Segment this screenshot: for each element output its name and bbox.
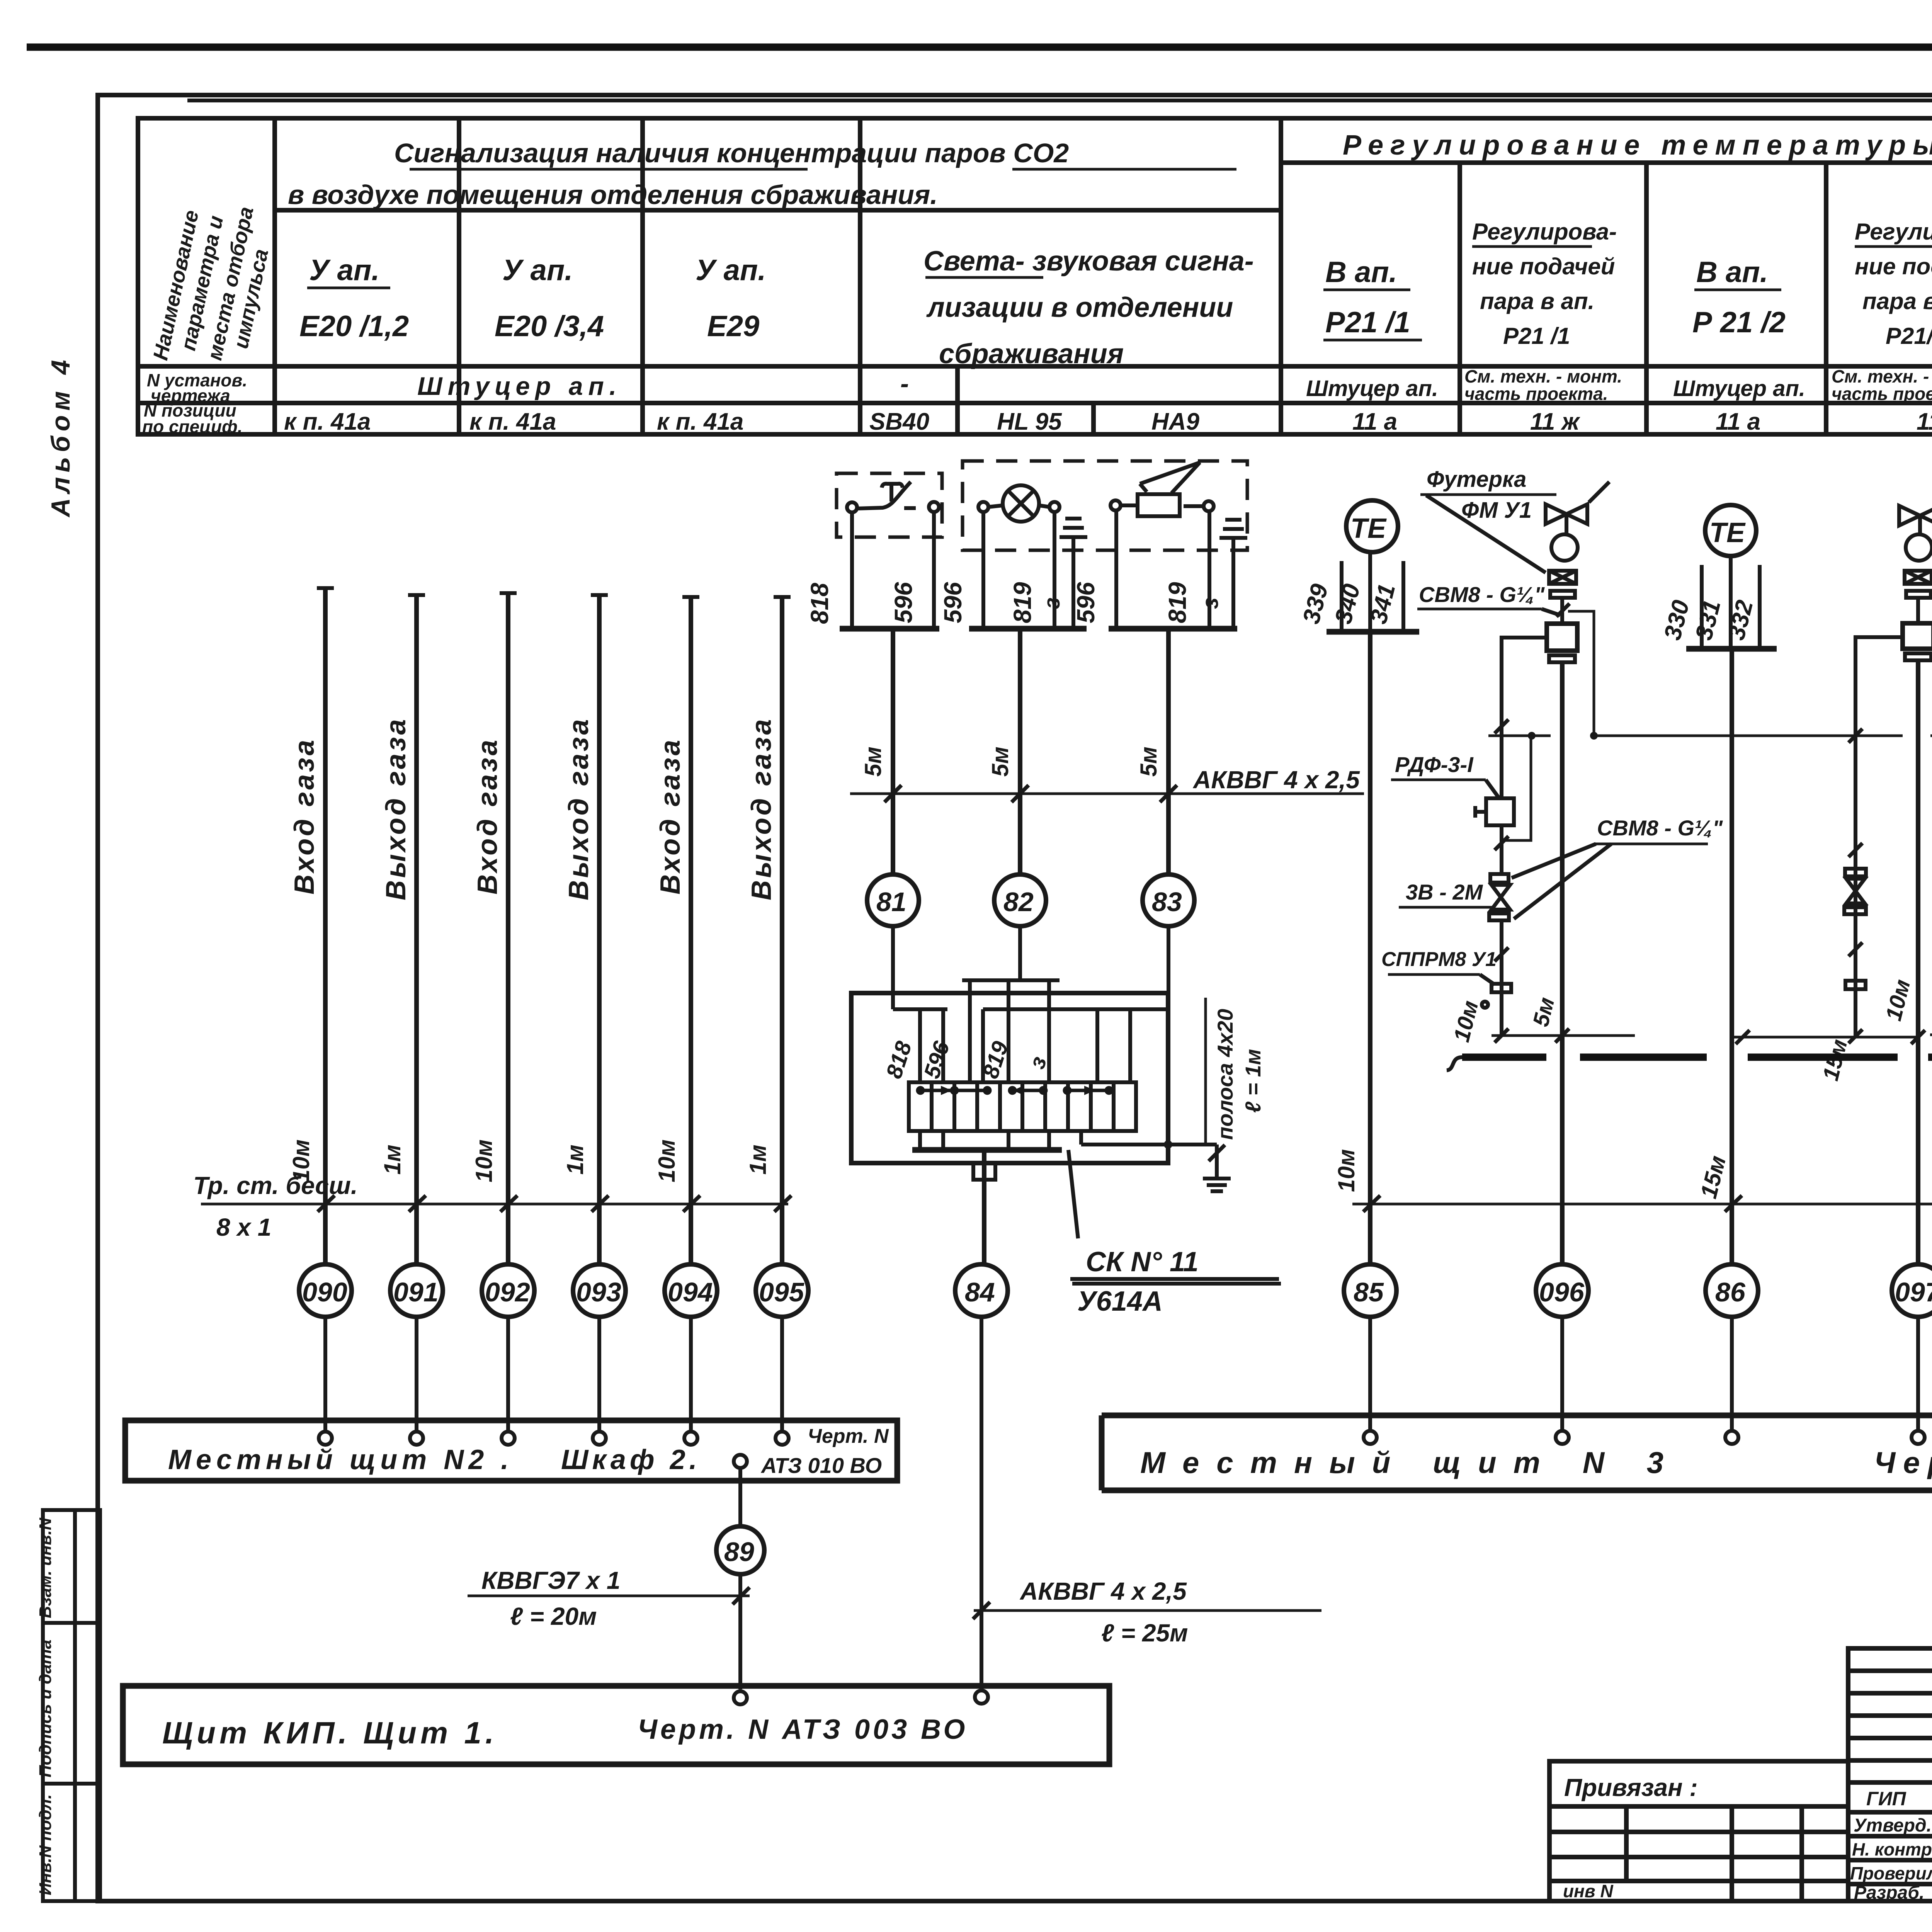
TE1 pin wires 339 340 341 [1342, 552, 1403, 632]
cable run Тр.ст.бесш. 8х1 left [193, 1172, 791, 1241]
svg-text:пара в ап.: пара в ап. [1862, 288, 1932, 314]
svg-text:з: з [1198, 597, 1223, 609]
svg-text:В ап.: В ап. [1325, 256, 1397, 289]
instrument circle 091 [390, 1264, 443, 1317]
wire 82 to box [1018, 926, 1022, 980]
svg-text:596: 596 [1072, 582, 1100, 623]
cable run АКВВГ 4х2,5 [850, 766, 1364, 802]
solenoid2 box [1903, 623, 1932, 649]
cell Регулирование подачей пара Р21/2 [1855, 219, 1932, 349]
svg-text:Щит КИП. Щит 1.: Щит КИП. Щит 1. [162, 1716, 498, 1750]
wire to СППРМ8 [1500, 920, 1503, 1036]
svg-text:818: 818 [806, 583, 833, 624]
solenoid2 flange [1905, 653, 1931, 660]
junction dot 2 [1590, 732, 1598, 740]
svg-text:пара в ап.: пара в ап. [1480, 288, 1594, 314]
svg-text:11 а: 11 а [1352, 408, 1397, 435]
wire 818 drop [850, 512, 854, 629]
terminal 86 [1725, 1431, 1738, 1444]
hatch under РДФ [1495, 836, 1509, 850]
ground symbol sk [1203, 1179, 1231, 1191]
instrument circle 093 [573, 1264, 626, 1317]
svg-text:Утверд.: Утверд. [1854, 1815, 1932, 1836]
cell Регулирование подачей пара Р21/1 [1472, 219, 1617, 349]
row label N установ. чертежа [147, 370, 247, 406]
terminal 097 [1912, 1431, 1925, 1444]
svg-text:Привязан :: Привязан : [1564, 1774, 1698, 1801]
TE2 bottom bar [1686, 646, 1777, 652]
svg-text:097: 097 [1895, 1277, 1932, 1307]
svg-text:Черт. N АТЗ 011 ВО: Черт. N АТЗ 011 ВО [1874, 1446, 1932, 1480]
svg-text:11 а: 11 а [1716, 408, 1760, 435]
svg-text:лизации в отделении: лизации в отделении [926, 292, 1233, 323]
svg-text:з: з [1039, 597, 1065, 609]
svg-text:НА9: НА9 [1151, 408, 1200, 435]
wire 097 run [1916, 660, 1920, 1264]
wires below circles to terminals N3 [1370, 1317, 1932, 1430]
svg-text:Черт. N: Черт. N [808, 1425, 889, 1447]
См.техн.-монт. часть проекта 2 [1832, 366, 1932, 404]
instrument circle 092 [482, 1264, 534, 1317]
instrument circle 090 [299, 1264, 352, 1317]
svg-text:Выход газа: Выход газа [381, 717, 412, 900]
horn НА9 symbol [1121, 463, 1204, 516]
wire 819a drop [1053, 512, 1056, 629]
svg-text:Р 21 /2: Р 21 /2 [1692, 306, 1786, 339]
margin stamp boxes bottom-left [36, 1510, 100, 1901]
wire 83 to box [1167, 926, 1170, 1009]
terminal 096 [1556, 1431, 1569, 1444]
valve2 actuator circle [1906, 534, 1932, 561]
svg-text:10м: 10м [654, 1139, 680, 1182]
harness bar C [983, 1009, 1168, 1082]
instrument circle 095 [756, 1264, 808, 1317]
svg-text:83: 83 [1152, 887, 1182, 917]
svg-text:Сигнализация наличия конц: Сигнализация наличия концентрации паров … [394, 138, 1069, 168]
label Черт.N АТЗ 010 ВО [760, 1425, 889, 1478]
wire Вход газа 2 [506, 593, 510, 1264]
wire 84 lower [980, 1317, 983, 1689]
svg-text:ние подачей: ние подачей [1855, 253, 1932, 279]
heavy pipe run Тр.ст.бесш 8х1 right [1462, 1054, 1932, 1061]
svg-text:Штуцер ап.: Штуцер ап. [1306, 376, 1438, 401]
output stub square [973, 1163, 995, 1180]
svg-text:ТЕ: ТЕ [1350, 513, 1387, 544]
svg-text:по специф.: по специф. [142, 417, 243, 437]
svg-text:85: 85 [1354, 1277, 1384, 1307]
wire 82 drop [1018, 629, 1022, 874]
wire Вход газа 3 [689, 597, 693, 1264]
title block outline [1848, 1648, 1932, 1901]
TE1 bottom bar [1327, 629, 1419, 635]
wire 096 run [1560, 662, 1565, 1264]
terminal 89 on КИП [734, 1691, 747, 1704]
РДФ outlet link to bus [1502, 736, 1531, 840]
svg-text:У614А: У614А [1077, 1286, 1163, 1317]
terminal 090 [319, 1432, 332, 1445]
svg-text:У ап.: У ап. [502, 254, 573, 287]
label СППРМ8 У1 [1381, 948, 1497, 985]
harness bar B [962, 980, 1060, 1082]
terminal horn left [1111, 500, 1121, 510]
wire to circle 89 [738, 1468, 742, 1526]
instrument circle 81 [867, 874, 919, 926]
svg-text:Черт. N АТЗ 003 ВО: Черт. N АТЗ 003 ВО [638, 1714, 968, 1745]
parameter table grid [138, 118, 1932, 434]
wire 596c drop [1114, 512, 1118, 629]
svg-text:Подпись и дата: Подпись и дата [36, 1639, 55, 1777]
svg-text:часть проекта: часть проекта [1832, 384, 1932, 404]
svg-text:Местный щит N2 .: Местный щит N2 . [168, 1444, 513, 1475]
svg-text:10м: 10м [288, 1139, 314, 1182]
label 10м branch [1449, 998, 1488, 1044]
svg-text:Р21/2: Р21/2 [1886, 323, 1932, 349]
control valve body [1546, 482, 1609, 535]
instrument circle 097 [1892, 1264, 1932, 1317]
wire 81 to box [891, 926, 895, 1009]
row label N позиции по специф. [142, 400, 243, 437]
svg-text:Н. контр.: Н. контр. [1852, 1839, 1932, 1859]
svg-text:в воздухе помещения отделе: в воздухе помещения отделения сбраживани… [288, 180, 938, 210]
terminal strip [909, 1082, 1136, 1131]
wire Выход газа 1 [414, 595, 419, 1264]
terminal sw right [929, 502, 939, 512]
solenoid valve box [1547, 624, 1577, 651]
harness bar A [893, 1009, 947, 1082]
svg-text:СППРМ8 У1: СППРМ8 У1 [1381, 948, 1497, 971]
wire 819b drop [1207, 512, 1211, 629]
svg-text:81: 81 [876, 887, 906, 917]
lamp HL95 symbol [988, 485, 1049, 522]
hatch above СППРМ8 [1495, 947, 1509, 961]
header: Сигнализация наличия концентрации паров СО2 [288, 138, 1236, 211]
terminal 095 [776, 1432, 789, 1445]
svg-text:090: 090 [302, 1277, 347, 1307]
svg-text:Света- звуковая сигна-: Света- звуковая сигна- [923, 246, 1254, 277]
svg-text:092: 092 [485, 1277, 530, 1307]
svg-text:ФМ У1: ФМ У1 [1461, 498, 1532, 523]
svg-text:ℓ = 25м: ℓ = 25м [1101, 1619, 1188, 1647]
svg-text:HL 95: HL 95 [997, 408, 1062, 435]
svg-text:часть проекта.: часть проекта. [1464, 384, 1608, 404]
solenoid flange [1549, 655, 1575, 662]
valve2 pilot box X [1905, 571, 1932, 584]
svg-text:10м: 10м [1333, 1149, 1359, 1192]
Привязан box [1549, 1761, 1848, 1901]
svg-text:ГИП: ГИП [1866, 1788, 1906, 1810]
ground symbol g1 [1060, 519, 1087, 629]
svg-text:ℓ = 1м: ℓ = 1м [1241, 1049, 1265, 1113]
cable label АКВВГ 4х2,5 l=25м [973, 1577, 1321, 1647]
bus group1 [840, 626, 939, 632]
svg-text:Футерка: Футерка [1427, 467, 1526, 492]
svg-text:Е20 /3,4: Е20 /3,4 [495, 310, 604, 343]
svg-text:АКВВГ 4 х 2,5: АКВВГ 4 х 2,5 [1192, 766, 1360, 794]
svg-text:SВ40: SВ40 [869, 408, 929, 435]
instrument circle 096 [1536, 1264, 1588, 1317]
switch SB40 symbol [857, 482, 916, 509]
svg-text:РДФ-3-I: РДФ-3-I [1395, 752, 1474, 777]
TE2 pin wires 330 331 332 [1702, 556, 1760, 649]
svg-text:5м: 5м [987, 747, 1013, 777]
branch2 drop [1855, 637, 1903, 846]
См.техн.-монт. часть проекта [1464, 366, 1622, 404]
svg-text:Регулирова-: Регулирова- [1855, 219, 1932, 245]
svg-text:Р21 /1: Р21 /1 [1325, 306, 1410, 339]
svg-text:Тр. ст. бесш.: Тр. ст. бесш. [193, 1172, 358, 1199]
wire 84 from box [982, 1150, 986, 1264]
svg-text:5м: 5м [860, 747, 886, 777]
svg-text:к п. 41а: к п. 41а [469, 408, 556, 435]
instrument circle 84 [955, 1264, 1008, 1317]
instrument circle 86 [1706, 1264, 1758, 1317]
label 3В-2М [1399, 880, 1493, 907]
branch to РДФ [1502, 638, 1547, 798]
svg-text:СВМ8 - G¼": СВМ8 - G¼" [1419, 582, 1545, 607]
svg-text:ние подачей: ние подачей [1472, 253, 1615, 279]
svg-text:Местный щит N 3: Местный щит N 3 [1140, 1446, 1680, 1480]
svg-text:В ап.: В ап. [1696, 256, 1768, 289]
dashed box lamp+horn group [963, 461, 1247, 550]
svg-text:Вход газа: Вход газа [655, 738, 686, 895]
instrument circle 85 [1344, 1264, 1396, 1317]
instrument circle 89 [716, 1526, 764, 1574]
thermocouple TE1 [1346, 500, 1398, 552]
signature rows [1850, 1787, 1932, 1903]
svg-text:Альбом 4: Альбом 4 [46, 355, 75, 518]
wires below circles to terminals [325, 1317, 782, 1431]
cell Света-звуковая сигнализации [923, 246, 1254, 369]
panel box Местный щит N2 Шкаф 2 [125, 1420, 897, 1481]
svg-text:Выход газа: Выход газа [563, 717, 594, 900]
panel box Местный щит N3 [1102, 1415, 1932, 1490]
terminal lamp right [1049, 502, 1060, 512]
wire 83 drop [1166, 629, 1171, 874]
svg-text:Инв.N подл.: Инв.N подл. [36, 1794, 55, 1895]
svg-text:096: 096 [1539, 1277, 1585, 1307]
wire Выход газа 2 [597, 595, 602, 1264]
table corner label (rotated): Наименование параметра и места отбора импульса [149, 205, 273, 362]
svg-text:Разраб.: Разраб. [1854, 1883, 1924, 1903]
svg-text:к п. 41а: к п. 41а [284, 408, 371, 435]
solenoid pilot box X [1549, 571, 1576, 584]
wire Выход газа 3 [780, 597, 784, 1264]
svg-text:091: 091 [393, 1277, 439, 1307]
svg-text:СВМ8 - G¼": СВМ8 - G¼" [1597, 816, 1723, 840]
svg-text:095: 095 [759, 1277, 804, 1307]
svg-text:Штуцер ап.: Штуцер ап. [417, 372, 622, 400]
svg-text:82: 82 [1003, 887, 1034, 917]
ground branch from strip [1081, 1131, 1225, 1179]
РДФ-3-I regulator box [1475, 798, 1514, 825]
terminal lamp left [978, 502, 988, 512]
svg-text:819: 819 [1009, 582, 1036, 623]
svg-text:10м: 10м [471, 1139, 497, 1182]
air run 2 line 15м-10м [1732, 977, 1925, 1083]
flange plate [1550, 591, 1575, 598]
svg-text:86: 86 [1715, 1277, 1746, 1307]
svg-text:Взам. инв.N: Взам. инв.N [36, 1517, 55, 1618]
air run 5м line [1492, 995, 1635, 1043]
terminal for wire 89 [734, 1455, 747, 1468]
hatch branch2 on air bus [1849, 729, 1862, 743]
svg-text:Е29: Е29 [707, 310, 759, 343]
valve2 flange [1906, 591, 1931, 598]
svg-text:сбраживания: сбраживания [939, 338, 1124, 369]
strip lower stubs [920, 1131, 1049, 1150]
instrument circle 094 [665, 1264, 717, 1317]
svg-text:Вход газа: Вход газа [289, 738, 320, 895]
svg-text:11 ж: 11 ж [1530, 408, 1581, 435]
label СВМ8-G 1/4 (1) [1417, 582, 1560, 615]
junction box СК N11 outline [851, 993, 1168, 1163]
wire 86 run [1730, 649, 1734, 1264]
valve actuator circle [1551, 534, 1578, 561]
bus group2 [969, 626, 1087, 632]
label СК N11 У614А [1068, 1150, 1281, 1317]
svg-text:У ап.: У ап. [696, 254, 766, 287]
junction dot on ground branch [1164, 1140, 1172, 1149]
valve2 stem wire [1916, 598, 1920, 623]
svg-text:инв N: инв N [1563, 1881, 1613, 1901]
svg-text:У ап.: У ап. [309, 254, 379, 287]
wire 81 drop [891, 629, 895, 874]
svg-text:3В - 2М: 3В - 2М [1406, 880, 1483, 904]
svg-text:Вход газа: Вход газа [472, 738, 503, 895]
strip jumper arrows [918, 1086, 1112, 1095]
branch2 lower [1844, 843, 1866, 1043]
svg-text:Регулирова-: Регулирова- [1472, 219, 1617, 245]
svg-text:Выход газа: Выход газа [746, 717, 777, 900]
svg-text:ℓ = 20м: ℓ = 20м [510, 1602, 597, 1630]
junction dot 1 [1528, 732, 1536, 740]
svg-text:89: 89 [724, 1537, 754, 1567]
svg-text:АТЗ 010 ВО: АТЗ 010 ВО [760, 1453, 882, 1478]
svg-text:Регулирование температуры: Регулирование температуры [1343, 130, 1932, 161]
svg-text:093: 093 [576, 1277, 621, 1307]
svg-text:596: 596 [889, 582, 917, 623]
hatch on branch [1495, 719, 1509, 733]
terminal 85 [1364, 1431, 1377, 1444]
cell У ап. Е20/1,2 [299, 254, 409, 343]
label СВМ8-G 1/4 (2) [1512, 816, 1723, 919]
cable label КВВГЭ7х1 l=20м [468, 1566, 750, 1630]
terminal sw left [847, 502, 857, 512]
svg-text:5м: 5м [1136, 747, 1162, 777]
label Футерка ФМ У1 [1420, 467, 1556, 573]
terminal 092 [502, 1432, 515, 1445]
wire 596a drop [932, 512, 936, 629]
terminal 091 [410, 1432, 423, 1445]
panel box Щит КИП Щит 1 [123, 1686, 1109, 1764]
valve2 bowtie [1899, 483, 1932, 535]
svg-text:к п. 41а: к п. 41а [657, 408, 743, 435]
svg-text:8 х 1: 8 х 1 [216, 1213, 271, 1241]
wire 596b drop [981, 512, 985, 629]
curly tail of pipe run [1447, 1057, 1462, 1070]
page top border [27, 44, 1932, 51]
wire РДФ to 3В-2М [1500, 825, 1503, 874]
positioner line to air bus [1568, 611, 1594, 736]
hatch on valve wire [1556, 604, 1570, 617]
svg-text:094: 094 [668, 1277, 713, 1307]
wire Вход газа 1 [323, 588, 328, 1264]
svg-text:АКВВГ 4 х 2,5: АКВВГ 4 х 2,5 [1019, 1577, 1187, 1605]
terminal 093 [593, 1432, 606, 1445]
bus group3 [1109, 626, 1237, 632]
instrument circle 83 [1143, 874, 1194, 926]
ground symbol g2 [1219, 520, 1247, 629]
wire 89 to shield [738, 1574, 742, 1689]
wire 85 run [1368, 632, 1372, 1264]
svg-text:Р21 /1: Р21 /1 [1503, 323, 1570, 349]
svg-text:СК N° 11: СК N° 11 [1086, 1247, 1199, 1277]
svg-text:ТЕ: ТЕ [1709, 517, 1746, 548]
terminal 094 [684, 1432, 697, 1445]
3В-2М valve [1489, 874, 1510, 920]
wire top caps [317, 588, 791, 597]
svg-text:1м: 1м [562, 1145, 588, 1175]
cell В ап. Р21/2 [1692, 256, 1786, 339]
air bus Тр.медная segments [1488, 735, 1932, 737]
svg-text:596: 596 [939, 582, 967, 623]
svg-text:Штуцер ап.: Штуцер ап. [1673, 376, 1805, 401]
dashed box switch group [837, 473, 942, 537]
svg-text:КВВГЭ7 х 1: КВВГЭ7 х 1 [481, 1566, 620, 1594]
svg-text:-: - [900, 369, 909, 398]
cell У ап. Е20/3,4 [495, 254, 604, 343]
svg-text:полоса 4х20: полоса 4х20 [1213, 1009, 1237, 1140]
svg-text:Проверил: Проверил [1850, 1863, 1932, 1883]
cell В ап. Р21/1 [1323, 256, 1422, 340]
bottom bus in box [912, 1147, 1062, 1153]
cell У ап. Е29 [696, 254, 766, 343]
svg-text:Е20 /1,2: Е20 /1,2 [299, 310, 409, 343]
thermocouple TE2 [1705, 505, 1756, 556]
cable run КВВГ 4х1 [1352, 1175, 1932, 1212]
terminal 84 on КИП [975, 1690, 988, 1704]
svg-text:11 ж: 11 ж [1917, 408, 1932, 435]
label полоса 4х20 l=1м [1206, 998, 1265, 1143]
svg-text:1м: 1м [745, 1145, 771, 1175]
svg-text:1м: 1м [379, 1145, 405, 1175]
РДФ-3-I regulator label [1391, 752, 1499, 798]
label Тр.ст.бесш 8х1 right [1930, 1005, 1932, 1105]
terminal horn right [1204, 501, 1214, 511]
svg-text:84: 84 [965, 1277, 995, 1307]
svg-text:Шкаф 2.: Шкаф 2. [561, 1444, 701, 1475]
instrument circle 82 [994, 874, 1046, 926]
svg-text:819: 819 [1163, 582, 1191, 623]
СППРМ8 device [1492, 984, 1511, 992]
